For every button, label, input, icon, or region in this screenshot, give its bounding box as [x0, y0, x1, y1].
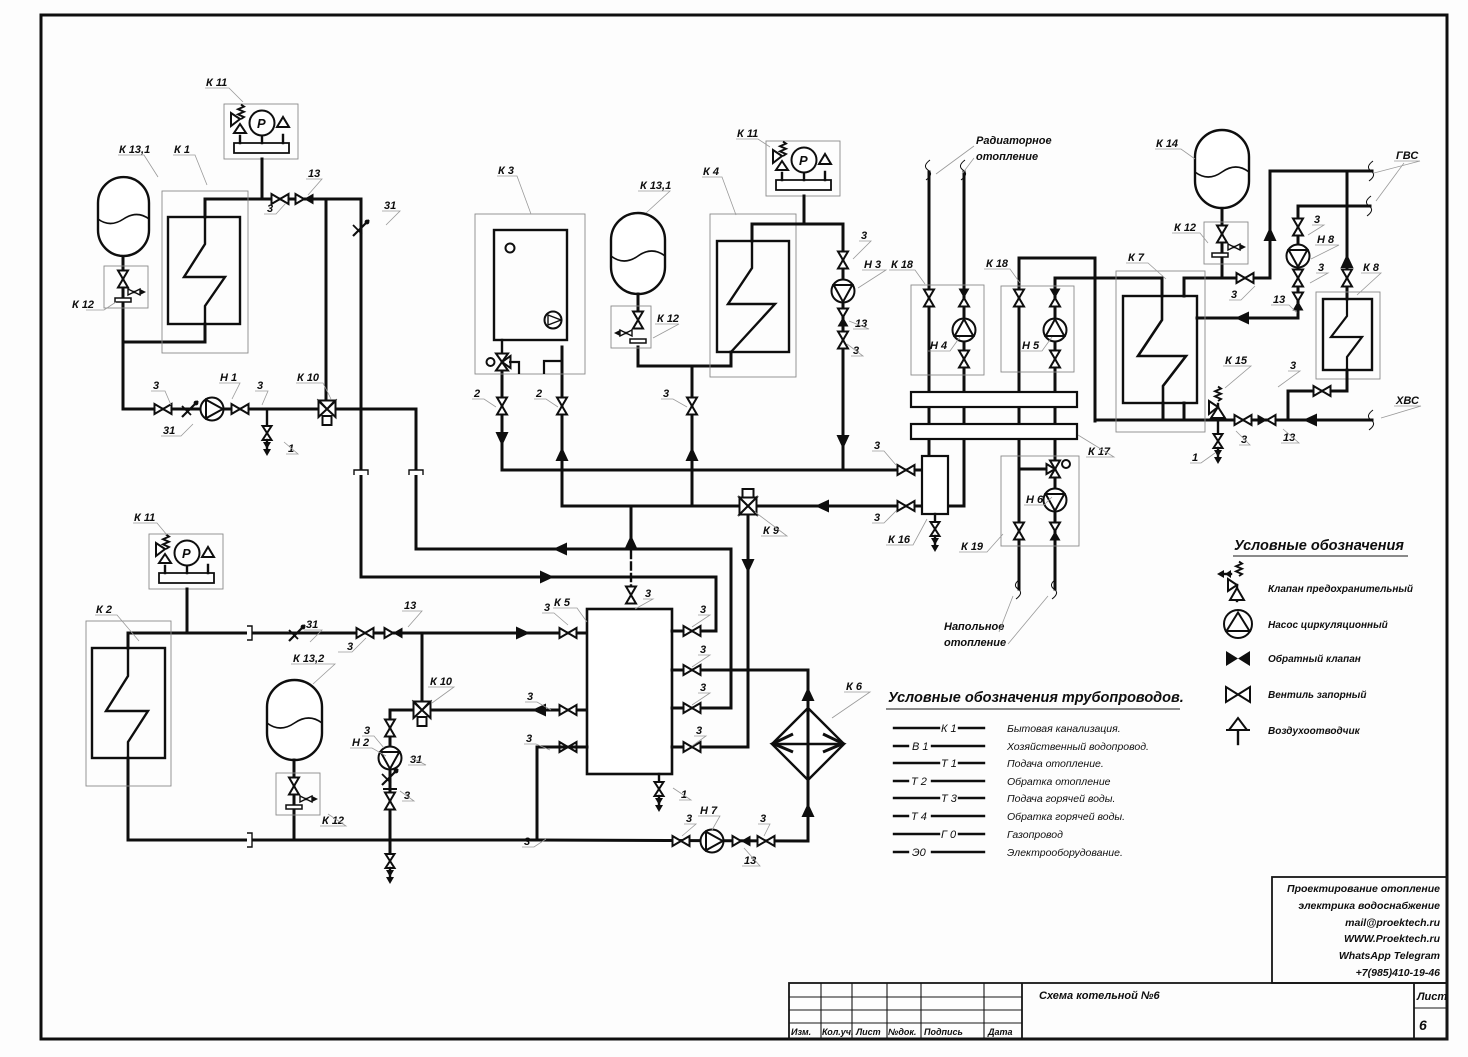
- svg-text:3: 3: [874, 512, 880, 524]
- svg-text:К 12: К 12: [72, 299, 94, 311]
- pump H8: [1287, 245, 1310, 268]
- arrow up on K4 drop: [686, 447, 699, 461]
- wire H8 drop x=1298: [1197, 206, 1298, 318]
- heat exchanger K8: [1316, 292, 1380, 379]
- svg-text:31: 31: [306, 619, 318, 631]
- manifold bar K17 return: [911, 424, 1077, 439]
- svg-text:Электрооборудование.: Электрооборудование.: [1007, 847, 1123, 859]
- svg-text:ХВС: ХВС: [1395, 395, 1420, 407]
- svg-text:Н 7: Н 7: [700, 805, 718, 817]
- svg-text:Н 8: Н 8: [1317, 234, 1335, 246]
- valve 3 above H2: [385, 720, 395, 737]
- union tick: [383, 788, 397, 790]
- svg-text:К 11: К 11: [206, 77, 227, 89]
- wire K4 supply header y=224: [752, 224, 843, 241]
- svg-text:P: P: [257, 116, 266, 131]
- svg-text:Э0: Э0: [912, 847, 927, 859]
- svg-text:Подача горячей воды.: Подача горячей воды.: [1007, 793, 1115, 805]
- pump H2: [379, 747, 402, 770]
- drain 1 under K5: [658, 774, 660, 782]
- check 13 on H3 drop: [838, 309, 849, 327]
- wire tank stem: [293, 760, 296, 840]
- pump H7: [701, 830, 724, 853]
- wire K5 lower return drop x=537: [536, 747, 539, 840]
- expansion tank K13,1 (second): [611, 213, 665, 294]
- svg-text:К 12: К 12: [322, 815, 344, 827]
- svg-text:3: 3: [1231, 289, 1237, 301]
- arrow up K3 right: [556, 447, 569, 461]
- legend pump: [1224, 610, 1252, 638]
- wire K8 riser: [1346, 171, 1349, 299]
- valve 3 right of H7: [758, 836, 775, 846]
- manifold bar K17 supply: [911, 392, 1077, 407]
- company info box: [1272, 877, 1447, 983]
- svg-text:3: 3: [760, 813, 766, 825]
- 3-way valve K10 (second): [414, 702, 431, 727]
- labels K1 area: [72, 77, 396, 455]
- wire K11 stem: [803, 196, 806, 224]
- svg-text:3: 3: [874, 440, 880, 452]
- svg-text:P: P: [182, 546, 191, 561]
- 4-way valve K9: [740, 489, 757, 515]
- svg-text:Н 6: Н 6: [1026, 494, 1044, 506]
- wire port A line: [672, 577, 716, 631]
- legend air vent: [1226, 718, 1250, 744]
- svg-text:Изм.: Изм.: [791, 1027, 811, 1037]
- svg-text:Вентиль запорный: Вентиль запорный: [1268, 690, 1366, 701]
- svg-text:К 11: К 11: [134, 512, 155, 524]
- valve group K12 (fourth): [1204, 222, 1248, 264]
- svg-text:В 1: В 1: [912, 741, 929, 753]
- wire K7 left stub line y=278: [1055, 278, 1162, 296]
- svg-text:К 19: К 19: [961, 541, 984, 553]
- svg-text:К 1: К 1: [174, 144, 190, 156]
- valve 2 on K3 left: [497, 398, 507, 415]
- svg-text:К 4: К 4: [703, 166, 719, 178]
- svg-text:+7(985)410-19-46: +7(985)410-19-46: [1356, 967, 1441, 979]
- heat exchanger K2: [86, 621, 171, 786]
- heat exchanger K4: [710, 214, 796, 377]
- valve 3 below: [838, 332, 848, 349]
- 3-way valve under K3: [501, 340, 503, 353]
- svg-text:31: 31: [163, 425, 175, 437]
- pump H1: [201, 398, 224, 421]
- svg-text:3: 3: [1314, 214, 1320, 226]
- wire port C line: [672, 549, 731, 708]
- arrow left on XBC: [1303, 414, 1317, 427]
- svg-text:3: 3: [700, 644, 706, 656]
- legend check valve: [1226, 651, 1250, 666]
- svg-text:Подпись: Подпись: [924, 1027, 963, 1037]
- svg-text:К 6: К 6: [846, 681, 863, 693]
- svg-text:Проектирование отопление: Проектирование отопление: [1287, 883, 1440, 895]
- sleeve on supply: [247, 626, 252, 640]
- svg-text:К 16: К 16: [888, 534, 911, 546]
- wire return header line1 y=470: [502, 469, 923, 472]
- svg-text:К 2: К 2: [96, 604, 112, 616]
- valve 3 on K8 riser: [1342, 270, 1352, 287]
- svg-text:3: 3: [544, 602, 550, 614]
- svg-text:3: 3: [700, 604, 706, 616]
- wire K11 stem: [261, 159, 264, 199]
- svg-text:Обратка горячей воды.: Обратка горячей воды.: [1007, 811, 1125, 823]
- wire riser x=422 to K10b: [421, 633, 424, 701]
- svg-text:Лист: Лист: [855, 1027, 881, 1037]
- svg-text:3: 3: [267, 203, 273, 215]
- wire port D line: [672, 670, 748, 747]
- svg-text:3: 3: [347, 641, 353, 653]
- svg-text:3: 3: [257, 380, 263, 392]
- valve 3 left of H7: [673, 836, 690, 846]
- svg-text:Н 3: Н 3: [864, 259, 881, 271]
- check 13 below H8: [1293, 293, 1304, 311]
- wire mixing line y=710: [390, 709, 587, 712]
- svg-text:К 10: К 10: [430, 676, 453, 688]
- wire GVS main line y=171: [1270, 170, 1372, 173]
- valve 3 on vent riser: [626, 587, 636, 604]
- svg-text:1: 1: [288, 443, 294, 455]
- wire K18-2 left riser to cold vertical: [1019, 257, 1095, 260]
- arrow on K7 return line: [1235, 312, 1249, 325]
- svg-text:3: 3: [1241, 434, 1247, 446]
- svg-text:К 10: К 10: [297, 372, 320, 384]
- svg-text:3: 3: [861, 230, 867, 242]
- svg-text:Лист: Лист: [1416, 991, 1447, 1003]
- svg-text:К 11: К 11: [737, 128, 758, 140]
- safety valve K15: [1217, 404, 1219, 420]
- svg-text:Н 5: Н 5: [1022, 340, 1040, 352]
- svg-text:3: 3: [700, 682, 706, 694]
- wire pump row y=409: [123, 408, 416, 411]
- pump group K18 (radiators): [911, 285, 984, 375]
- heat exchanger K1: [162, 191, 248, 353]
- svg-text:2: 2: [535, 388, 542, 400]
- svg-text:mail@proektech.ru: mail@proektech.ru: [1345, 917, 1440, 929]
- wire riser x=416 down: [415, 409, 418, 469]
- svg-text:К 13,2: К 13,2: [293, 653, 324, 665]
- labels right section: [1128, 138, 1420, 464]
- wire GVS riser x=1270: [1269, 171, 1272, 278]
- svg-text:3: 3: [524, 836, 530, 848]
- svg-text:Т 4: Т 4: [911, 811, 927, 823]
- wire dashed vent riser: [630, 506, 633, 549]
- svg-text:Насос циркуляционный: Насос циркуляционный: [1268, 620, 1388, 631]
- svg-text:Обратка отопление: Обратка отопление: [1007, 776, 1111, 788]
- svg-text:6: 6: [1419, 1017, 1427, 1033]
- arrow up on K8 riser: [1341, 254, 1354, 268]
- arrow down K3 left: [496, 432, 509, 446]
- wire H3 drop x=843: [842, 224, 845, 470]
- valve 3 right of K14 stem: [1237, 273, 1254, 283]
- floor heating group K19: [1001, 456, 1079, 546]
- svg-text:К 15: К 15: [1225, 355, 1248, 367]
- tick 31 on supply: [289, 625, 305, 641]
- svg-text:№док.: №док.: [888, 1027, 916, 1037]
- svg-text:К 12: К 12: [1174, 222, 1196, 234]
- labels K2 area: [96, 512, 453, 827]
- sleeve x=416: [409, 470, 423, 475]
- legend shut-off valve: [1226, 687, 1250, 702]
- svg-text:Т 1: Т 1: [941, 758, 957, 770]
- filter K6: [772, 708, 844, 780]
- svg-text:К 5: К 5: [554, 597, 571, 609]
- drain 1 below K15: [1217, 420, 1219, 434]
- valve group K12 (second, mirrored): [611, 306, 651, 348]
- valve 3 on mixing line: [560, 705, 577, 715]
- pipes legend rows: [894, 728, 984, 852]
- wire K7 right stub to GVS riser: [1184, 278, 1270, 296]
- legend safety valve: [1217, 562, 1244, 601]
- left port3 valve: [560, 742, 577, 752]
- svg-text:3: 3: [645, 588, 651, 600]
- title bar: [789, 983, 1447, 1039]
- svg-text:13: 13: [404, 600, 416, 612]
- heat exchanger K7: [1116, 271, 1205, 432]
- boiler K3: [475, 214, 585, 374]
- wire K11 stem: [186, 589, 189, 633]
- check on K19 right: [1050, 523, 1061, 541]
- wire XBC line y=420: [1095, 419, 1372, 422]
- wire K8 bottom: [1288, 370, 1347, 420]
- valve 3 on return: [155, 404, 172, 414]
- svg-text:Напольное: Напольное: [944, 621, 1004, 633]
- valve 3 on H3 drop: [838, 252, 848, 269]
- check 13 on XBC: [1258, 415, 1276, 426]
- svg-text:WhatsApp Telegram: WhatsApp Telegram: [1339, 950, 1440, 962]
- valve 3 below H2: [385, 793, 395, 810]
- dirt separator K16: [922, 456, 948, 514]
- svg-text:К 13,1: К 13,1: [119, 144, 150, 156]
- svg-text:Схема котельной №6: Схема котельной №6: [1039, 990, 1161, 1002]
- separator K5: [587, 609, 672, 774]
- svg-text:Подача отопление.: Подача отопление.: [1007, 758, 1104, 770]
- valve 3 on XBC: [1235, 415, 1252, 425]
- wire K1 return L: [123, 324, 205, 342]
- svg-text:К 14: К 14: [1156, 138, 1178, 150]
- drain 1 below return: [266, 409, 268, 425]
- svg-text:P: P: [799, 153, 808, 168]
- svg-text:13: 13: [1273, 294, 1285, 306]
- svg-text:К 13,1: К 13,1: [640, 180, 671, 192]
- valve 3 below H8: [1293, 270, 1303, 287]
- arrow down into header: [837, 435, 850, 449]
- sleeve on return: [247, 833, 252, 847]
- svg-text:К 18: К 18: [986, 258, 1009, 270]
- valve 2 on K3 right: [557, 398, 567, 415]
- safety group K11: [224, 104, 298, 159]
- svg-text:Условные обозначения: Условные обозначения: [1234, 538, 1404, 554]
- tick 31 below H2: [382, 769, 398, 785]
- wire expansion stem x=123: [122, 256, 125, 409]
- arrow up on GVS riser: [1264, 227, 1277, 241]
- valve on K19 left: [1014, 523, 1024, 540]
- svg-text:2: 2: [473, 388, 480, 400]
- wire K4 bottom drop x=692: [691, 366, 694, 506]
- safety group K11 (third): [766, 141, 840, 196]
- svg-text:13: 13: [744, 855, 756, 867]
- wire H7 loop y=841: [537, 840, 808, 841]
- svg-text:отопление: отопление: [976, 151, 1038, 163]
- wire riser x=361 down: [360, 199, 363, 469]
- svg-text:К 18: К 18: [891, 259, 914, 271]
- svg-text:3: 3: [1290, 360, 1296, 372]
- labels K3/K4 area: [473, 128, 914, 546]
- wire K9 drop to K6 header: [747, 515, 750, 670]
- valve group K12: [104, 266, 148, 308]
- svg-text:3: 3: [364, 725, 370, 737]
- svg-text:3: 3: [663, 388, 669, 400]
- svg-text:31: 31: [384, 200, 396, 212]
- svg-text:Дата: Дата: [987, 1027, 1013, 1037]
- svg-text:Кол.уч.: Кол.уч.: [822, 1027, 854, 1037]
- check valve 13 on supply: [296, 194, 314, 205]
- pump group K18 (second): [1001, 286, 1074, 372]
- wire cold vertical x=1095: [1094, 258, 1097, 421]
- svg-text:3: 3: [153, 380, 159, 392]
- expansion tank K14: [1195, 130, 1249, 208]
- svg-text:Обратный клапан: Обратный клапан: [1268, 653, 1361, 665]
- wire riser x=326 to K10: [325, 199, 328, 400]
- valve 3 on K4 drop: [687, 398, 697, 415]
- wire K7 bottom stubs: [1163, 403, 1184, 420]
- wire tank stem to K4 return: [637, 294, 640, 309]
- sheet number box: [1414, 1007, 1447, 1009]
- arrow down on K9 drop: [742, 559, 755, 573]
- svg-text:Клапан предохранительный: Клапан предохранительный: [1268, 584, 1413, 595]
- expansion tank K13,2: [267, 680, 322, 760]
- revision table: [789, 997, 1022, 1023]
- svg-text:3: 3: [696, 725, 702, 737]
- wire K1 supply header y=199: [205, 199, 361, 217]
- arrow on supply: [516, 627, 530, 640]
- valve 3 at K5 inlet: [560, 628, 577, 638]
- K16 drain: [934, 514, 936, 522]
- wire K3 left drop x=502: [501, 370, 504, 470]
- svg-text:Радиаторное: Радиаторное: [976, 135, 1052, 147]
- svg-text:Т 2: Т 2: [911, 776, 927, 788]
- svg-text:1: 1: [1192, 452, 1198, 464]
- svg-text:13: 13: [308, 168, 320, 180]
- svg-text:3: 3: [527, 691, 533, 703]
- svg-text:К 8: К 8: [1363, 262, 1380, 274]
- tick 31 on return: [182, 401, 198, 417]
- svg-text:WWW.Proektech.ru: WWW.Proektech.ru: [1344, 933, 1441, 945]
- valve group K12 (third): [276, 773, 320, 815]
- valve 3 top of H8 drop: [1293, 219, 1303, 236]
- wire H2 branch: [389, 710, 392, 840]
- wire K2 return y=840: [128, 758, 537, 840]
- svg-text:Бытовая канализация.: Бытовая канализация.: [1007, 723, 1121, 735]
- svg-text:К 12: К 12: [657, 313, 679, 325]
- drain below return line: [389, 840, 392, 855]
- labels K5/K6 area: [524, 588, 863, 867]
- arrow toward K10b: [532, 704, 546, 717]
- svg-text:К 9: К 9: [763, 525, 780, 537]
- svg-text:Н 2: Н 2: [352, 737, 369, 749]
- wire port B line to K6: [672, 670, 808, 841]
- sleeve x=361: [354, 470, 368, 475]
- svg-text:К 1: К 1: [941, 723, 957, 735]
- wire K3 right drop x=562: [561, 347, 564, 506]
- tick 31 on riser x=361: [353, 220, 369, 236]
- check 13 on supply: [385, 628, 403, 639]
- svg-text:Воздухоотводчик: Воздухоотводчик: [1268, 726, 1361, 737]
- svg-text:Н 1: Н 1: [220, 372, 237, 384]
- svg-text:Условные обозначения трубопров: Условные обозначения трубопроводов.: [888, 690, 1184, 706]
- 3-way valve K10: [319, 401, 336, 426]
- svg-text:3: 3: [526, 733, 532, 745]
- valve 3 line1 into K16: [898, 465, 915, 475]
- pump H6: [1044, 489, 1067, 512]
- wire return header line2 y=506: [563, 505, 923, 508]
- safety group K11 (second): [149, 534, 223, 589]
- svg-text:Г 0: Г 0: [941, 829, 957, 841]
- svg-text:Газопровод: Газопровод: [1007, 829, 1063, 841]
- valve 3 on supply: [357, 628, 374, 638]
- wire risers through bars: [929, 407, 964, 456]
- svg-text:К 7: К 7: [1128, 252, 1145, 264]
- valve 3 right of pump: [232, 404, 249, 414]
- svg-text:отопление: отопление: [944, 637, 1006, 649]
- check 13: [733, 836, 751, 847]
- wire K2 supply header y=633: [128, 633, 587, 648]
- svg-text:К 3: К 3: [498, 165, 514, 177]
- svg-text:ГВС: ГВС: [1396, 150, 1419, 162]
- valve 3 on K8 bottom: [1314, 386, 1331, 396]
- svg-text:3: 3: [686, 813, 692, 825]
- pump H3: [832, 280, 855, 303]
- labels manifold area: [930, 135, 1111, 649]
- svg-text:3: 3: [1318, 262, 1324, 274]
- valve 3 on supply: [272, 194, 289, 204]
- arrow on line2 toward K9: [815, 500, 829, 513]
- svg-text:Хозяйственный водопровод.: Хозяйственный водопровод.: [1006, 741, 1149, 753]
- wire K14 stem: [1221, 208, 1224, 278]
- wire radiator risers: [928, 172, 931, 392]
- valve 3 line2 into K16: [898, 501, 915, 511]
- 3-way valve with actuator: [1047, 460, 1071, 478]
- svg-text:электрика водоснабжение: электрика водоснабжение: [1298, 900, 1440, 912]
- expansion tank K13,1: [98, 177, 149, 256]
- svg-text:Н 4: Н 4: [930, 340, 947, 352]
- svg-text:Т 3: Т 3: [941, 793, 958, 805]
- wire GVS circulation y=206: [1298, 205, 1370, 208]
